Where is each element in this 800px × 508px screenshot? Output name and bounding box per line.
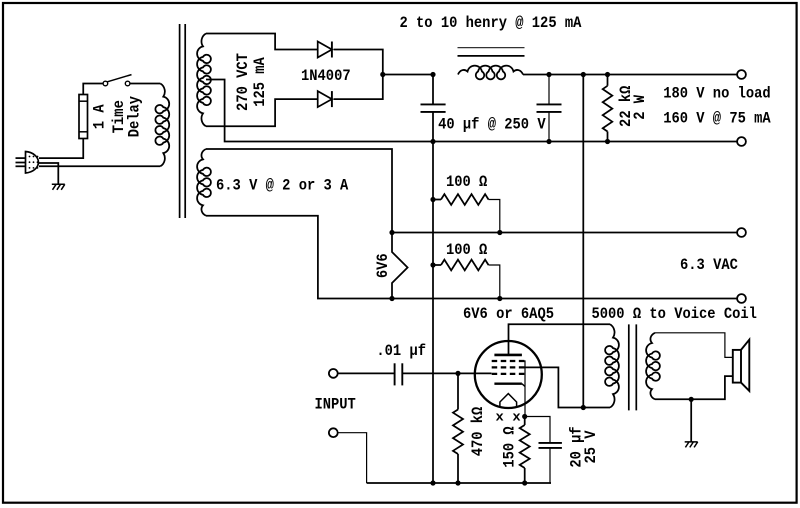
junction bleeder bottom — [605, 139, 610, 144]
switch S1 — [103, 81, 108, 86]
terminal 6.3VAC upper — [737, 228, 746, 237]
wire plug ground lead — [39, 163, 58, 184]
tube heater — [500, 394, 517, 407]
capacitor C4 20uf bypass — [525, 417, 550, 443]
junction B+ cap2 — [546, 72, 551, 77]
AC plug P1 — [26, 152, 39, 174]
diode D2 1N4007 — [318, 91, 332, 107]
wire input return — [338, 433, 367, 483]
svg-text:40 µf @ 250 V: 40 µf @ 250 V — [438, 115, 546, 133]
wire plate lead — [509, 324, 611, 355]
wire HV top to diode D1 — [206, 34, 318, 50]
svg-text:1 A: 1 A — [91, 104, 109, 129]
transformer T2 secondary winding — [646, 333, 660, 400]
wire common rail — [433, 141, 737, 143]
svg-text:6.3 V @ 2 or 3 A: 6.3 V @ 2 or 3 A — [216, 177, 349, 195]
choke L1 2-10 henry — [458, 66, 523, 80]
terminal input return — [329, 428, 338, 437]
wire input to cap — [338, 372, 395, 374]
svg-text:x: x — [512, 410, 520, 425]
svg-text:6.3 VAC: 6.3 VAC — [680, 256, 738, 274]
svg-text:x: x — [496, 410, 504, 425]
resistor R2 100 ohm — [441, 194, 489, 205]
svg-text:150 Ω: 150 Ω — [501, 426, 519, 468]
junction heater top — [389, 230, 394, 235]
terminal input hot — [329, 369, 338, 378]
transformer T1 primary winding — [155, 84, 169, 167]
junction cap1 bottom — [430, 139, 435, 144]
wire plug neutral to primary — [39, 165, 160, 167]
junction ground rail left — [430, 480, 435, 485]
wire OT secondary top — [655, 333, 733, 358]
fuse F1 1A time delay — [79, 95, 88, 139]
capacitor C3 .01uf — [394, 363, 396, 385]
junction cathode R bottom — [522, 480, 527, 485]
junction heater bottom — [389, 296, 394, 301]
wire bottom ground rail — [367, 482, 551, 484]
junction cathode node — [522, 414, 527, 419]
wire 6.3V top — [206, 149, 392, 233]
heater 6V6 chevron — [392, 233, 408, 299]
junction B+ cap1 — [430, 72, 435, 77]
transformer T1 core — [179, 24, 181, 218]
junction R3 to rail B — [497, 296, 502, 301]
junction ground rail 470k — [455, 480, 460, 485]
junction R2 tap — [430, 197, 435, 202]
wire HV bottom to diode D2 — [206, 99, 318, 126]
terminal 180V out — [737, 70, 746, 79]
tube plate — [494, 354, 522, 357]
wire heater rail B — [392, 298, 737, 300]
junction R2 to rail A — [497, 230, 502, 235]
terminal 6.3VAC lower — [737, 294, 746, 303]
svg-text:6V6: 6V6 — [374, 253, 392, 278]
wire heater rail A — [392, 232, 737, 234]
svg-text:180 V no load: 180 V no load — [663, 84, 771, 102]
svg-text:100 Ω: 100 Ω — [446, 173, 488, 191]
svg-text:470 kΩ: 470 kΩ — [469, 406, 487, 456]
transformer T2 core — [628, 324, 630, 410]
svg-text:5000 Ω to Voice Coil: 5000 Ω to Voice Coil — [592, 305, 757, 323]
resistor R5 150 ohm — [524, 417, 526, 426]
transformer T1 6.3V winding — [197, 149, 211, 216]
wire speaker ground drop — [690, 399, 692, 442]
svg-text:.01 µf: .01 µf — [376, 342, 426, 360]
svg-text:2 to 10 henry @ 125 mA: 2 to 10 henry @ 125 mA — [400, 14, 582, 32]
svg-text:160 V @ 75 mA: 160 V @ 75 mA — [663, 109, 771, 127]
transformer T2 primary winding — [605, 324, 619, 407]
svg-text:25 V: 25 V — [582, 430, 600, 463]
plug prongs — [16, 157, 26, 159]
wire B+ drop to OT — [582, 75, 584, 408]
wire switch to primary — [130, 83, 160, 85]
wire screen to B+ — [522, 367, 611, 407]
terminal common out — [737, 137, 746, 146]
tube cathode — [494, 383, 522, 385]
wire fuse to switch — [83, 84, 103, 95]
wire beam plates to cathode — [522, 361, 526, 417]
capacitor C1 40uf — [432, 75, 434, 105]
wire cap to grid — [402, 372, 491, 374]
svg-text:6V6 or 6AQ5: 6V6 or 6AQ5 — [463, 305, 554, 323]
resistor R3 100 ohm — [441, 260, 489, 271]
junction B+ OT drop — [581, 72, 586, 77]
junction B+ bleeder — [605, 72, 610, 77]
junction R3 tap — [430, 262, 435, 267]
svg-text:125 mA: 125 mA — [251, 57, 269, 107]
tube screen grid row — [492, 366, 525, 368]
svg-text:2 W: 2 W — [631, 95, 649, 120]
tube beam plates row — [492, 360, 525, 362]
svg-text:100 Ω: 100 Ω — [446, 241, 488, 259]
resistor R4 470k — [457, 373, 459, 409]
wire plug hot to fuse — [39, 139, 83, 159]
speaker LS1 — [733, 350, 741, 383]
diode D1 1N4007 — [318, 42, 332, 58]
wire B+ rail choke to terminal — [523, 74, 737, 76]
ground plug — [52, 184, 65, 190]
ground speaker — [685, 442, 698, 448]
svg-text:270 VCT: 270 VCT — [234, 53, 252, 111]
junction cap2 bottom — [546, 139, 551, 144]
transformer T1 HV secondary winding — [197, 34, 211, 127]
junction grid resistor — [455, 371, 460, 376]
junction screen B+ OT — [581, 405, 586, 410]
capacitor C2 40uf — [548, 75, 550, 105]
svg-text:INPUT: INPUT — [315, 395, 357, 413]
resistor R1 22k bleeder — [607, 75, 609, 86]
tube V1 envelope — [475, 341, 542, 408]
wire 6.3V bottom — [206, 216, 392, 299]
wire OT secondary bottom — [655, 376, 733, 399]
choke core lines — [458, 47, 525, 49]
svg-text:Delay: Delay — [126, 96, 144, 138]
wire diode cathodes junction — [334, 50, 383, 100]
wire HV center tap — [206, 80, 433, 142]
junction speaker ground — [689, 397, 694, 402]
junction diode output — [380, 72, 385, 77]
svg-text:1N4007: 1N4007 — [301, 67, 351, 85]
tube control grid row — [492, 373, 525, 375]
wire common down-run — [432, 142, 434, 484]
